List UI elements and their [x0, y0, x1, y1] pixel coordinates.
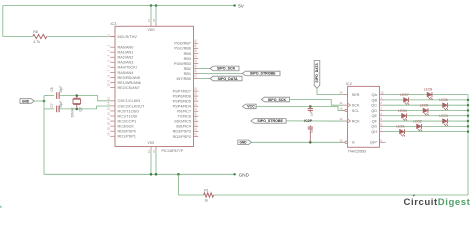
svg-text:SER: SER — [352, 93, 360, 97]
wire VDD pin 32 to 5V rail — [155, 6, 157, 24]
junction dot VSS12 on GND rail — [150, 173, 153, 176]
logo CircuitDigest — [404, 195, 471, 208]
wire VDD pin 11 to 5V rail — [150, 6, 152, 24]
svg-text:8: 8 — [106, 75, 110, 77]
wire C7 to OSC2 jog — [59, 106, 110, 109]
svg-text:31: 31 — [152, 149, 156, 153]
svg-text:QD: QD — [371, 109, 377, 113]
IC3 left pin labels — [118, 35, 145, 139]
svg-text:RX/RC7: RX/RC7 — [177, 110, 191, 114]
svg-text:LED3: LED3 — [439, 114, 448, 118]
svg-text:PSP5/RD5: PSP5/RD5 — [173, 100, 191, 104]
svg-text:RA1/AN1: RA1/AN1 — [118, 51, 134, 55]
svg-text:LED8: LED8 — [424, 88, 433, 92]
svg-text:12: 12 — [339, 117, 343, 121]
node GND terminal dot — [233, 173, 235, 175]
pin stub VSS 31 — [155, 147, 157, 151]
svg-text:2: 2 — [380, 101, 382, 105]
svg-text:33pF: 33pF — [59, 86, 63, 93]
svg-text:5: 5 — [106, 59, 110, 61]
svg-text:28: 28 — [194, 97, 198, 101]
svg-text:CircuitDigest: CircuitDigest — [404, 197, 471, 208]
wire 5V rail (top) — [3, 5, 235, 7]
svg-text:23: 23 — [194, 122, 198, 126]
IC2 right pin stubs — [380, 95, 386, 143]
svg-text:QH: QH — [371, 130, 377, 134]
svg-text:RC1/T1OSI: RC1/T1OSI — [118, 114, 138, 118]
svg-text:9: 9 — [380, 138, 382, 142]
svg-text:14: 14 — [339, 91, 343, 95]
wire VSS 31 to GND rail — [155, 150, 157, 174]
net flag SIPO_DATA (at RB0) — [210, 76, 242, 81]
wire QD to LED5 — [384, 109, 423, 111]
svg-text:27: 27 — [194, 102, 198, 106]
IC3 left pin numbers — [106, 34, 110, 136]
svg-text:29: 29 — [194, 92, 198, 96]
svg-text:Q2: Q2 — [79, 107, 83, 111]
svg-text:74HC595D: 74HC595D — [348, 149, 367, 153]
svg-text:PGD/RB7: PGD/RB7 — [174, 42, 191, 46]
svg-text:IC2: IC2 — [346, 82, 352, 86]
wire GND flag to junction — [34, 100, 44, 102]
wire LED cathode rail (right) — [467, 95, 469, 195]
junction dot VDD pin 32 on 5V rail — [155, 4, 158, 7]
IC2 right pin labels — [370, 93, 378, 145]
svg-text:RA5/AN4: RA5/AN4 — [118, 71, 134, 75]
crystal Q2 20MHz — [70, 96, 82, 118]
junction dot cathode rail row 2 — [467, 99, 469, 101]
LED LED4 — [398, 109, 407, 121]
net flag SIPO_SCK (at RB2) — [210, 66, 239, 71]
capacitor C4 (GND side) — [308, 125, 314, 142]
wire OSC1 branch left — [44, 95, 54, 97]
svg-text:RA2/AN2: RA2/AN2 — [118, 56, 134, 60]
wire RB0 to SIPO_DATA flag — [198, 78, 210, 80]
wire LED3 to cathode rail — [448, 120, 469, 122]
svg-text:7: 7 — [106, 70, 110, 72]
net flag SIPO_SCK (at IC2) — [261, 97, 289, 102]
svg-text:RB2: RB2 — [184, 67, 191, 71]
svg-text:R1: R1 — [204, 188, 209, 192]
net flag GND (at IC2) — [238, 140, 252, 145]
svg-text:OSC2/CLKOUT: OSC2/CLKOUT — [118, 104, 145, 108]
svg-text:17: 17 — [106, 117, 110, 121]
svg-text:11: 11 — [147, 19, 151, 22]
svg-text:PGM/RB3: PGM/RB3 — [174, 62, 191, 66]
svg-text:12: 12 — [147, 149, 151, 153]
svg-text:RE1/WR/AN6: RE1/WR/AN6 — [118, 81, 141, 85]
svg-text:RB1: RB1 — [184, 72, 191, 76]
capacitor C7 33pF — [50, 101, 63, 113]
svg-text:SDO/RC5: SDO/RC5 — [174, 120, 191, 124]
wire GND to G pin — [252, 141, 344, 143]
svg-text:14: 14 — [106, 102, 110, 106]
svg-text:39: 39 — [194, 44, 198, 48]
IC2 left pin stubs and bubbles — [343, 95, 348, 144]
wire VCC to SCL — [256, 106, 345, 110]
svg-text:38: 38 — [194, 49, 198, 53]
junction dot VSS31 on GND rail — [155, 173, 158, 176]
svg-text:QE: QE — [372, 114, 378, 118]
decorative corner mark — [0, 206, 3, 208]
wire LED2 to cathode rail — [422, 125, 469, 127]
svg-text:TX/RC6: TX/RC6 — [177, 115, 191, 119]
junction dot GND branch — [43, 100, 46, 103]
junction dot crystal bottom — [76, 108, 79, 111]
svg-text:RA3/AN3: RA3/AN3 — [118, 61, 134, 65]
IC3 VDD pin numbers 11 32 — [147, 18, 156, 22]
svg-text:C6: C6 — [50, 87, 54, 91]
svg-text:RE2/CS/AN7: RE2/CS/AN7 — [118, 86, 140, 90]
wire QG to LED2 — [384, 125, 416, 127]
svg-text:LED4: LED4 — [398, 109, 407, 113]
svg-text:24: 24 — [194, 117, 198, 121]
LED LED5 — [420, 103, 429, 115]
svg-text:20: 20 — [106, 132, 110, 136]
junction dot GND decoupling — [309, 141, 312, 144]
svg-text:G: G — [352, 141, 355, 145]
svg-text:PSP4/RD4: PSP4/RD4 — [173, 105, 191, 109]
IC3 right pin stubs — [194, 43, 199, 136]
svg-text:35: 35 — [194, 64, 198, 68]
svg-text:RB5: RB5 — [184, 52, 191, 56]
svg-text:5: 5 — [380, 117, 382, 121]
svg-text:SIPO_SCK: SIPO_SCK — [217, 67, 236, 71]
wire VSS 12 to GND rail — [150, 150, 152, 174]
svg-text:RD2/PSP2: RD2/PSP2 — [173, 135, 191, 139]
svg-text:1uF: 1uF — [310, 111, 314, 116]
svg-text:VSS: VSS — [148, 141, 156, 145]
pin stub VSS 12 — [150, 147, 152, 151]
svg-text:15: 15 — [380, 91, 384, 95]
resistor R1 1k — [204, 188, 214, 202]
pin stub MCLR pin 1 — [110, 36, 115, 38]
svg-text:RCK: RCK — [352, 119, 360, 123]
svg-text:RE0/RD/AN5: RE0/RD/AN5 — [118, 76, 140, 80]
svg-text:QB: QB — [372, 98, 378, 102]
svg-text:5V: 5V — [238, 3, 245, 8]
svg-text:33: 33 — [194, 74, 198, 78]
svg-text:13: 13 — [339, 138, 343, 142]
net flag SIPO_STROBE (at RB1) — [242, 71, 280, 76]
svg-text:37: 37 — [194, 54, 198, 58]
capacitor C3 (VCC side) — [308, 106, 314, 116]
junction dot cathode rail row 5 — [467, 115, 469, 117]
wire GND rail down to R1 — [177, 174, 179, 195]
svg-text:40: 40 — [194, 39, 198, 43]
junction dot cathode rail row 8 — [467, 130, 469, 132]
svg-text:PIC16F877P: PIC16F877P — [162, 149, 184, 153]
svg-text:PSP7/RD7: PSP7/RD7 — [173, 90, 191, 94]
svg-text:25: 25 — [194, 112, 198, 116]
LED LED2 — [413, 119, 422, 131]
wire C6 to OSC1 jog — [59, 96, 110, 101]
svg-text:34: 34 — [194, 69, 198, 73]
IC3 left pin stubs — [110, 37, 115, 137]
pin stub VDD 11 — [150, 23, 152, 26]
wire QB to LED7 — [384, 99, 403, 101]
svg-text:R8: R8 — [33, 30, 38, 34]
svg-text:QF: QF — [372, 119, 378, 123]
wire GND rail (bottom) — [44, 173, 235, 175]
svg-text:SCK: SCK — [352, 104, 360, 108]
svg-text:10: 10 — [339, 106, 343, 110]
svg-text:26: 26 — [194, 107, 198, 111]
svg-text:GND: GND — [22, 99, 30, 103]
junction dot VCC decoupling — [309, 105, 312, 108]
junction dot cathode rail row 3 — [467, 104, 469, 106]
svg-text:RB4: RB4 — [184, 57, 191, 61]
wire LED6 to cathode rail — [448, 104, 469, 106]
svg-text:IC3: IC3 — [111, 22, 117, 26]
svg-text:SIPO_STROBE: SIPO_STROBE — [257, 119, 283, 123]
svg-text:QH*: QH* — [370, 141, 378, 145]
wire 5V to R8 — [3, 36, 33, 38]
svg-text:6: 6 — [106, 65, 110, 67]
svg-text:22: 22 — [194, 127, 198, 131]
wire OSC2 branch left — [44, 108, 54, 110]
svg-text:10: 10 — [106, 83, 110, 87]
wire LED7 to cathode rail — [409, 99, 469, 101]
junction dot VDD pin 11 on 5V rail — [150, 4, 153, 7]
svg-text:3: 3 — [380, 106, 382, 110]
svg-text:GND: GND — [239, 172, 250, 177]
svg-text:19: 19 — [106, 127, 110, 131]
IC2 left pin numbers — [339, 91, 343, 143]
LED LED8 — [424, 88, 433, 100]
svg-text:16: 16 — [106, 112, 110, 116]
junction dot R1 branch — [177, 173, 180, 176]
svg-text:PSP6/RD6: PSP6/RD6 — [173, 95, 191, 99]
svg-text:RC3/SCK: RC3/SCK — [118, 125, 135, 129]
svg-text:SDI/RC4: SDI/RC4 — [176, 125, 191, 129]
LED LED1 — [396, 125, 405, 137]
svg-text:RD0/PSP0: RD0/PSP0 — [118, 130, 136, 134]
svg-text:RD1/PSP1: RD1/PSP1 — [118, 135, 136, 139]
wire SIPO_STROBE to RCK — [286, 120, 342, 122]
wire LED1 to cathode rail — [405, 131, 469, 133]
IC2 right pin numbers — [380, 91, 384, 143]
wire RB2 to SIPO_SCK flag — [198, 67, 210, 69]
svg-text:36: 36 — [194, 59, 198, 63]
IC3 right pin numbers — [194, 39, 198, 136]
wire SIPO_DATA down to SER — [317, 88, 343, 94]
microcontroller IC3 PIC16F877P outline — [115, 26, 194, 146]
junction dot cathode rail row 6 — [467, 120, 469, 122]
svg-text:LED5: LED5 — [420, 103, 429, 107]
svg-text:SIPO_DATA: SIPO_DATA — [315, 63, 319, 83]
wire QE to LED4 — [384, 115, 401, 117]
svg-text:9: 9 — [106, 80, 110, 82]
svg-text:RA4/T0CKI: RA4/T0CKI — [118, 66, 137, 70]
svg-text:IC2P: IC2P — [304, 119, 312, 123]
wire QH to LED1 — [384, 131, 399, 133]
svg-text:LED6: LED6 — [439, 98, 448, 102]
wire SIPO_SCK to SCK — [290, 100, 343, 106]
junction dot crystal top — [76, 94, 79, 97]
svg-text:7: 7 — [380, 128, 382, 132]
svg-text:SIPO_SCK: SIPO_SCK — [268, 98, 287, 102]
wire QC to LED6 — [384, 104, 442, 106]
svg-text:C7: C7 — [50, 103, 54, 107]
IC3 VSS pin numbers 12 31 — [147, 149, 156, 153]
svg-text:4: 4 — [106, 54, 110, 56]
svg-text:3: 3 — [106, 49, 110, 51]
svg-text:30: 30 — [194, 87, 198, 91]
svg-text:VDD: VDD — [148, 28, 156, 32]
svg-text:33pF: 33pF — [59, 101, 63, 108]
IC2 clock marks SCK RCK — [348, 103, 351, 123]
svg-text:SCL: SCL — [352, 109, 359, 113]
net flag SIPO_DATA (vertical, at IC2) — [314, 61, 320, 89]
svg-text:QG: QG — [371, 125, 377, 129]
shift register IC2 74HC595D outline — [348, 86, 380, 147]
svg-text:PGC/RB6: PGC/RB6 — [174, 47, 191, 51]
svg-text:RD3/PSP3: RD3/PSP3 — [173, 130, 191, 134]
svg-text:13: 13 — [106, 96, 110, 100]
svg-text:4.7k: 4.7k — [33, 40, 40, 44]
svg-text:11: 11 — [339, 101, 342, 105]
LED LED6 — [439, 98, 448, 110]
IC3 right pin labels — [173, 42, 191, 139]
svg-text:1uF: 1uF — [310, 128, 314, 133]
svg-text:LED7: LED7 — [400, 93, 409, 97]
wire LED8 to cathode rail — [432, 94, 468, 96]
net flag GND (crystal) — [20, 99, 34, 104]
svg-text:1: 1 — [106, 34, 110, 36]
svg-text:LED2: LED2 — [413, 119, 422, 123]
svg-text:RC2/CCP1: RC2/CCP1 — [118, 119, 137, 123]
svg-text:RC0/T1OSO: RC0/T1OSO — [118, 109, 140, 113]
wire R1 to LED cathode rail — [214, 194, 468, 196]
net flag SIPO_STROBE (at IC2) — [251, 119, 286, 124]
wire QF to LED3 — [384, 120, 442, 122]
svg-text:4: 4 — [380, 112, 382, 116]
svg-text:6: 6 — [380, 122, 382, 126]
junction dot cathode rail row 4 — [467, 109, 469, 111]
wire crystal left vertical — [43, 96, 45, 109]
net flag VCC — [243, 104, 257, 109]
wire LED4 to cathode rail — [407, 115, 469, 117]
svg-text:21: 21 — [194, 132, 198, 136]
IC2 left pin labels — [352, 93, 360, 145]
svg-text:15: 15 — [106, 107, 110, 111]
resistor R8 4.7k — [33, 30, 47, 44]
wire RB1 to SIPO_STROBE flag — [198, 72, 242, 74]
svg-text:INT/RB0: INT/RB0 — [176, 77, 191, 81]
svg-text:GND: GND — [240, 141, 248, 145]
wire junction down to GND rail — [43, 109, 45, 174]
svg-text:1k: 1k — [204, 199, 208, 203]
wire LED5 to cathode rail — [428, 109, 468, 111]
svg-text:VCC: VCC — [247, 105, 255, 109]
node 5V terminal dot — [233, 4, 235, 6]
pin stub VDD 32 — [155, 23, 157, 26]
svg-text:RA0/AN0: RA0/AN0 — [118, 46, 134, 50]
svg-text:SIPO_DATA: SIPO_DATA — [218, 77, 238, 81]
svg-text:QA: QA — [372, 93, 378, 97]
svg-text:SIPO_STROBE: SIPO_STROBE — [250, 72, 276, 76]
LED LED3 — [439, 114, 448, 126]
LED LED7 — [400, 93, 409, 105]
svg-text:1: 1 — [380, 96, 382, 100]
capacitor C6 33pF — [50, 86, 63, 99]
svg-text:OSC1/CLKIN: OSC1/CLKIN — [118, 99, 141, 103]
wire to R1 — [178, 194, 203, 196]
svg-text:32: 32 — [152, 18, 156, 22]
wire 5V left drop to MCLR net — [2, 6, 4, 37]
wire QA to LED8 — [384, 94, 427, 96]
svg-text:LED1: LED1 — [396, 125, 405, 129]
svg-text:20MHz: 20MHz — [70, 107, 74, 118]
svg-text:MCLR/THV: MCLR/THV — [118, 35, 138, 39]
junction dot cathode rail row 7 — [467, 125, 469, 127]
svg-text:18: 18 — [106, 122, 110, 126]
svg-text:QC: QC — [371, 104, 377, 108]
wire R8 to MCLR pin — [47, 36, 110, 38]
svg-text:2: 2 — [106, 44, 110, 46]
